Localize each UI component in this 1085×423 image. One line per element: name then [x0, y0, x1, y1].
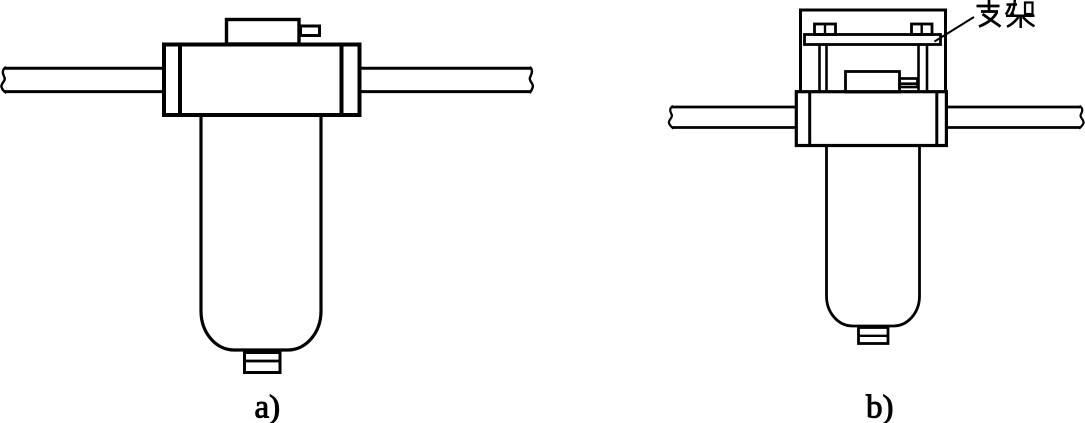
figure a: filter bowl: [201, 115, 321, 350]
figure a: left pipe break squiggle: [1, 67, 6, 93]
figure b: right pipe break squiggle: [1079, 106, 1084, 129]
figure b: bracket crossbar: [805, 35, 941, 45]
figure b: left pipe bottom wire: [672, 126, 797, 129]
figure a: drain divider line: [245, 360, 281, 363]
figure a: left flange line: [178, 43, 182, 117]
figure b: right flange line: [935, 91, 938, 147]
figure a: right pipe break squiggle: [530, 67, 533, 93]
figure b: filter head body: [796, 92, 946, 146]
figure b: left pipe break squiggle: [669, 106, 674, 129]
figure a: right pipe top wire: [358, 67, 531, 70]
svg-text:a): a): [255, 390, 281, 423]
figure b: cap side tab divider: [900, 82, 918, 85]
figure b: right bolt divider: [921, 24, 923, 35]
figure b: right pipe top wire: [946, 106, 1080, 109]
figure a: top cap: [227, 20, 300, 45]
figure b: left bolt: [815, 24, 836, 35]
figure b: right pipe bottom wire: [946, 126, 1080, 129]
figure b: drain divider line: [859, 335, 889, 337]
figure b: left bolt divider: [824, 24, 826, 35]
svg-text:b): b): [866, 390, 894, 423]
figure b: left flange line: [808, 91, 811, 147]
leader line to bracket label: [935, 17, 975, 42]
figure a: cap side tab: [301, 26, 320, 36]
figure a: right pipe bottom wire: [358, 90, 531, 93]
label 支架: character 支: [977, 0, 1001, 27]
figure b: cap side tab: [900, 79, 918, 88]
figure b: right leg left line: [917, 45, 920, 92]
figure b: left pipe top wire: [672, 106, 797, 109]
figure b: right leg right line: [926, 45, 929, 92]
figure b: right bolt: [912, 24, 933, 35]
figure a: right flange line: [340, 43, 344, 117]
figure b: left leg right line: [825, 45, 828, 92]
figure a: left pipe top wire: [5, 67, 164, 70]
figure b: bracket frame: [801, 10, 946, 92]
figure a: left pipe bottom wire: [5, 90, 164, 93]
figure a: drain body: [245, 353, 281, 373]
figure b: top cap: [846, 72, 900, 93]
label 支架: character 架: [1006, 0, 1035, 28]
figure b: left leg left line: [818, 45, 821, 92]
figure b: drain body: [859, 328, 889, 344]
figure b: filter bowl: [827, 146, 920, 327]
figure a: filter head body: [164, 45, 360, 116]
